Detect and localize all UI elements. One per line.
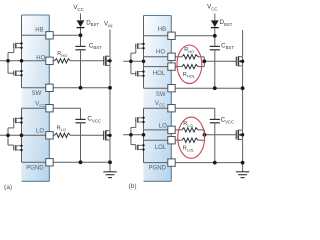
svg-text:LO: LO [159, 124, 167, 130]
svg-text:RLO: RLO [183, 121, 192, 128]
svg-text:RLO: RLO [57, 125, 66, 132]
svg-text:HB: HB [35, 27, 43, 33]
svg-text:PGND: PGND [26, 165, 44, 171]
svg-text:(b): (b) [129, 183, 137, 190]
svg-text:VCC: VCC [35, 102, 45, 109]
svg-text:SW: SW [156, 92, 166, 98]
svg-text:RHO: RHO [57, 51, 67, 58]
svg-text:LO: LO [36, 128, 44, 134]
svg-text:RHO: RHO [184, 47, 194, 54]
svg-text:HO: HO [156, 50, 165, 56]
svg-text:LOL: LOL [155, 145, 167, 151]
svg-text:PGND: PGND [149, 166, 167, 172]
svg-text:(a): (a) [4, 184, 12, 191]
svg-text:HO: HO [36, 55, 45, 61]
svg-text:VCC: VCC [155, 101, 165, 108]
svg-text:RHOL: RHOL [183, 72, 196, 79]
svg-text:HOL: HOL [153, 71, 166, 77]
svg-text:SW: SW [32, 91, 42, 97]
svg-text:HB: HB [158, 27, 166, 33]
svg-text:RLOL: RLOL [183, 146, 195, 153]
